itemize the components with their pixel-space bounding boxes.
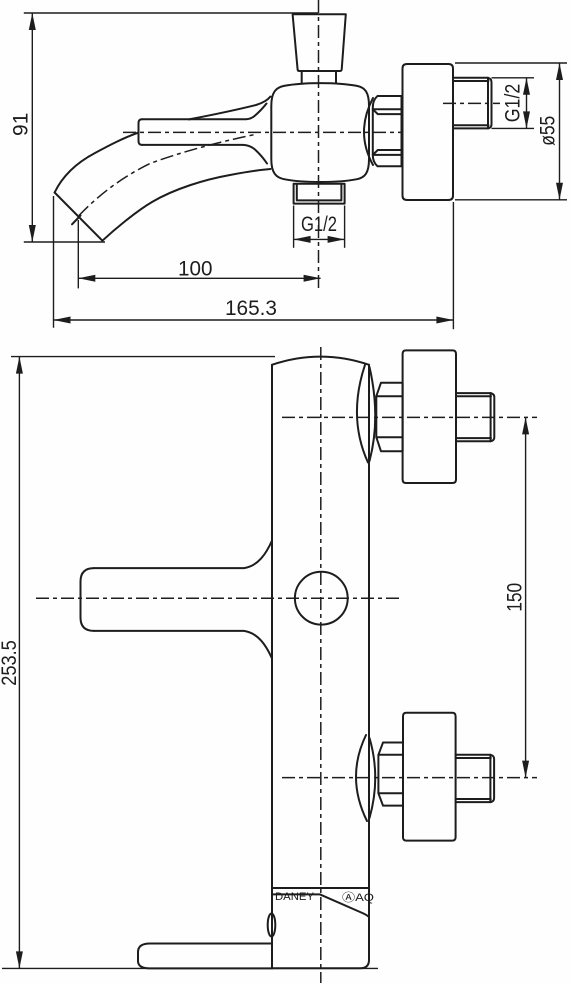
svg-text:91: 91 [10, 113, 33, 136]
svg-text:150: 150 [504, 583, 527, 612]
svg-text:100: 100 [178, 257, 213, 280]
svg-text:G1/2: G1/2 [301, 213, 337, 236]
svg-text:253.5: 253.5 [0, 640, 21, 686]
svg-text:G1/2: G1/2 [502, 84, 525, 123]
svg-text:ø55: ø55 [537, 116, 560, 146]
svg-text:ⒶAQ: ⒶAQ [342, 891, 375, 904]
svg-text:DANEY: DANEY [275, 891, 315, 903]
svg-text:165.3: 165.3 [225, 297, 277, 320]
